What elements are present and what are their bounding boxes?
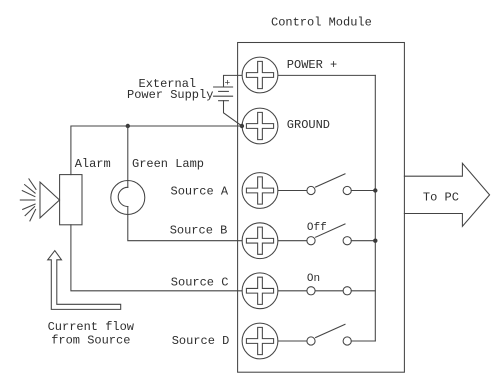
wire switch D to bus (351, 340, 375, 342)
terminal GROUND (242, 108, 278, 144)
junction node lamp tee (126, 124, 130, 128)
current flow arrow (hollow L arrow up) (48, 251, 121, 310)
svg-text:Alarm: Alarm (75, 157, 111, 171)
wire internal bus (374, 75, 376, 341)
wire lamp top (127, 126, 129, 187)
junction node at GROUND (240, 124, 244, 128)
wire switch C to bus (351, 290, 375, 292)
svg-text:Control Module: Control Module (271, 16, 372, 30)
alarm sound rays (20, 179, 36, 221)
svg-text:+: + (225, 78, 231, 89)
wire lamp to Source B (128, 207, 242, 241)
alarm horn cone (40, 182, 60, 218)
junction node at bus B (373, 239, 377, 243)
wire POWER+ to bus (278, 74, 375, 76)
wire switch A to bus (351, 190, 375, 192)
svg-text:Off: Off (307, 222, 327, 234)
switch SW-C (closed, On) (278, 287, 351, 295)
svg-text:Source A: Source A (171, 185, 229, 199)
svg-text:GROUND: GROUND (287, 118, 330, 132)
battery BT1 external power supply (214, 75, 242, 126)
terminal Source A (242, 173, 278, 209)
svg-text:Source C: Source C (171, 276, 229, 290)
terminal Source B (242, 223, 278, 259)
svg-text:from Source: from Source (51, 334, 130, 348)
terminal Source C (242, 273, 278, 309)
svg-text:On: On (307, 273, 320, 285)
svg-text:To PC: To PC (423, 191, 459, 205)
terminal POWER+ (242, 57, 278, 93)
svg-text:Source D: Source D (172, 334, 230, 348)
svg-text:Power Supply: Power Supply (127, 88, 213, 102)
svg-text:Green Lamp: Green Lamp (132, 157, 204, 171)
junction node at bus A (373, 188, 377, 192)
wire switch B to bus (351, 240, 375, 242)
svg-text:POWER +: POWER + (287, 58, 337, 72)
svg-text:Source B: Source B (170, 224, 228, 238)
To PC arrow (404, 163, 489, 226)
switch SW-A (open) (278, 174, 351, 195)
switch SW-D (open) (278, 324, 351, 345)
alarm LS1 body (60, 175, 82, 225)
terminal Source D (242, 323, 278, 359)
svg-text:Current flow: Current flow (48, 320, 135, 334)
wire GROUND row to alarm (71, 126, 242, 175)
switch SW-B (open, Off) (278, 224, 351, 245)
control module box (238, 43, 405, 373)
lamp L1 green lamp (111, 181, 145, 215)
wire alarm to Source C (71, 225, 242, 291)
